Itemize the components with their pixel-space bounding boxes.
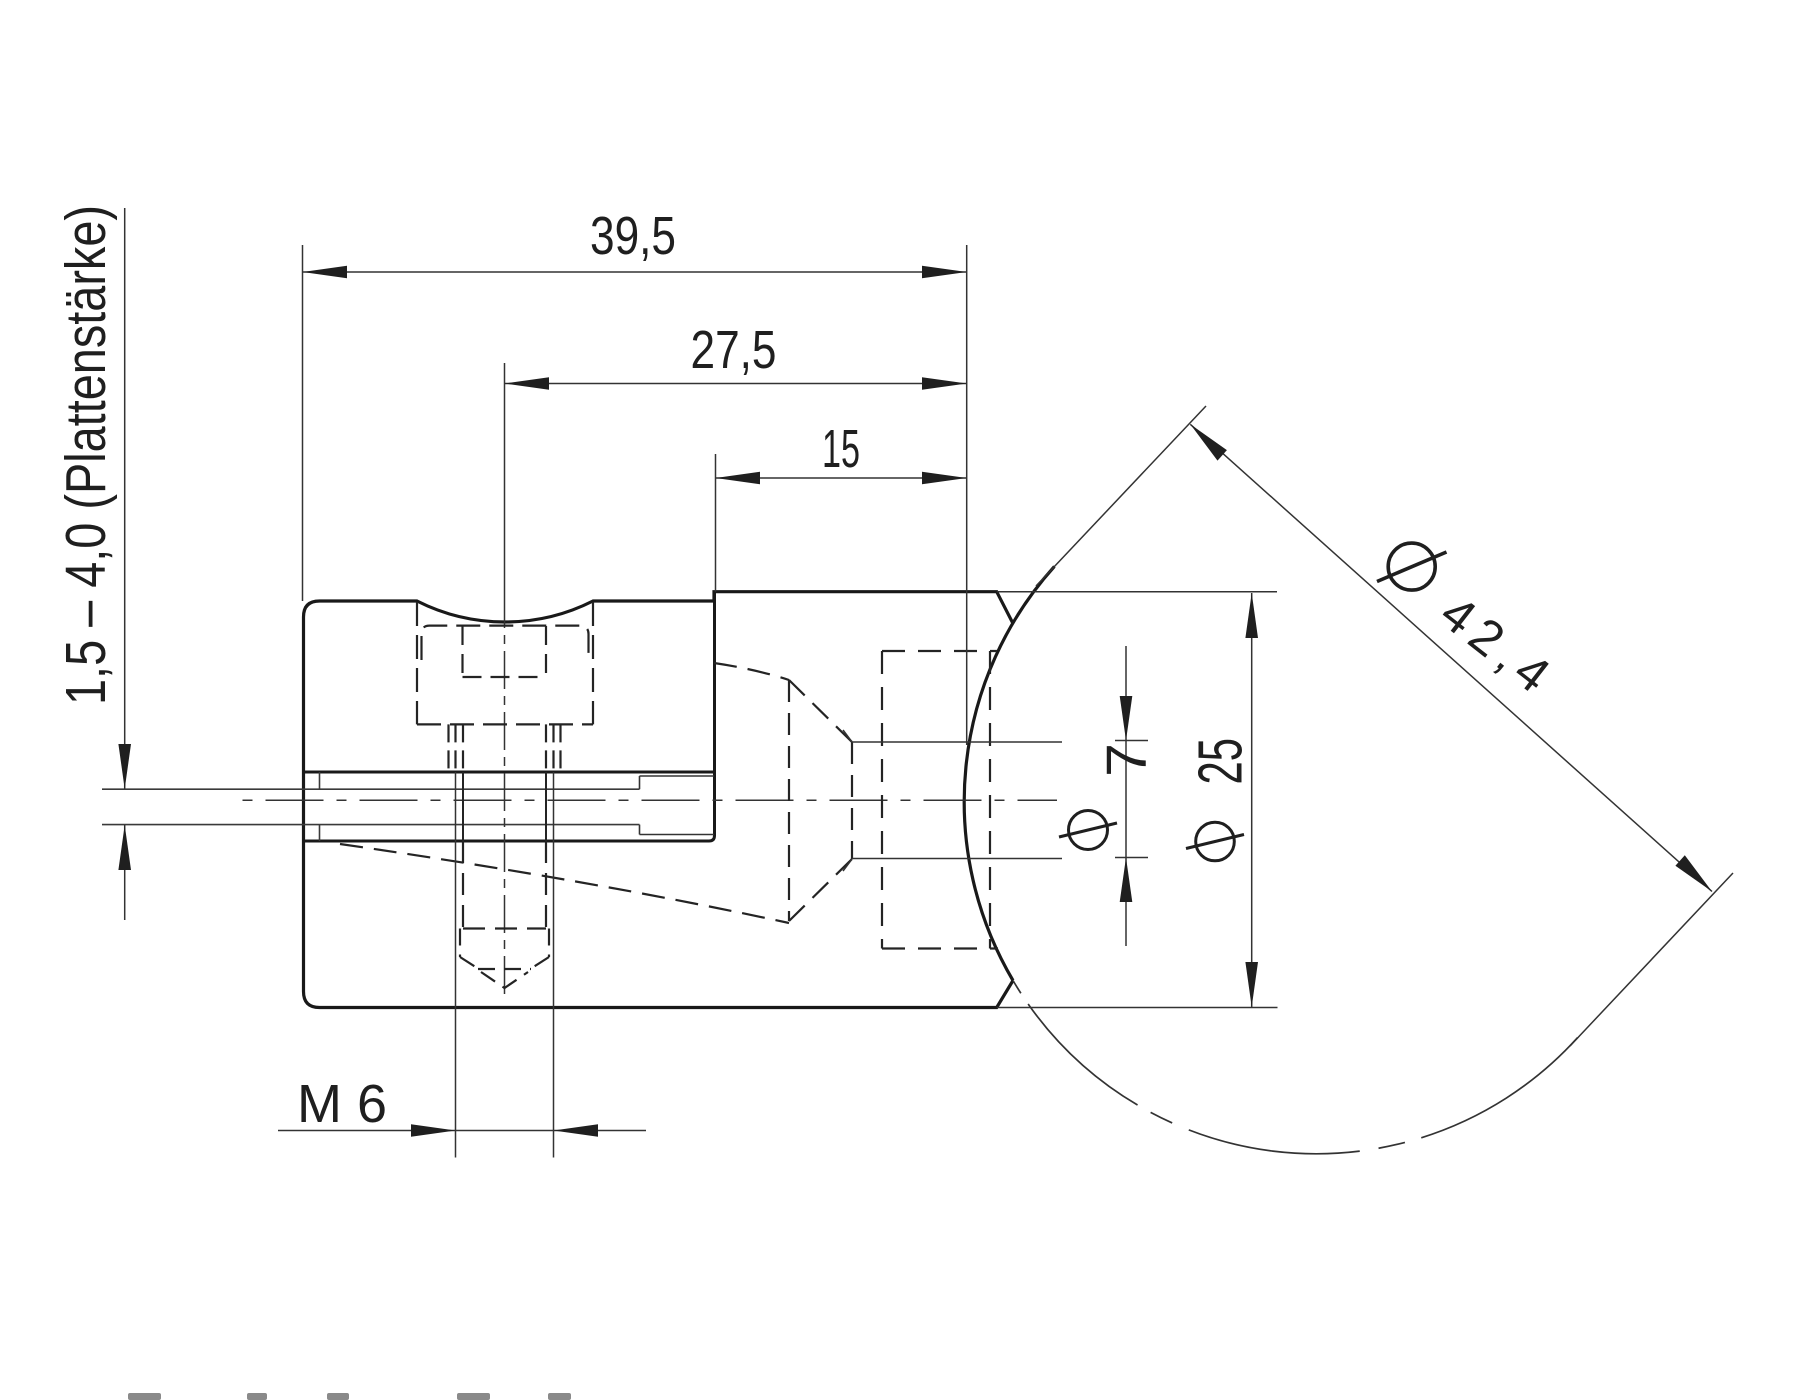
phantom lower tube arc (dash-dot) [1013,981,1578,1154]
dimension 1,5-4,0 Plattenstärke [124,208,126,920]
screw vertical center line [504,363,506,590]
glass slot bottom line [304,840,710,843]
dimension Ø25 [997,592,1278,1008]
glass plate (Plattenstärke) edges [102,772,640,841]
horizontal center line of mounting hole [243,799,1058,801]
svg-text:25: 25 [1187,738,1256,785]
solid cone end ticks [843,730,852,871]
clamp body outline (upper-left part with saddle dip, step, flange) [304,592,1014,1008]
hidden screw head outline [417,602,593,724]
hidden saddle pocket rectangle [882,651,998,949]
cut-off text at bottom edge [128,1393,571,1400]
hidden hex socket [463,626,547,677]
hidden clearance hole in upper jaw [449,724,561,772]
svg-text:M 6: M 6 [297,1074,387,1134]
svg-text:1,5 – 4,0 (Plattenstärke): 1,5 – 4,0 (Plattenstärke) [54,205,118,705]
hidden saddle curve lower [340,844,789,923]
dimension 27,5 [505,383,967,385]
svg-text:39,5: 39,5 [590,206,676,266]
hidden screw thread above slot [456,724,554,772]
dimension Ø7 [1115,646,1148,946]
slot inner end lines beyond gaskets [640,776,715,835]
mounting hole Ø7 edge lines on front face [852,742,1062,859]
svg-text:7: 7 [1095,743,1159,777]
dimension 39,5 [303,245,967,745]
dimension M 6 [278,772,646,1158]
screw visible through slot [463,772,546,841]
svg-text:27,5: 27,5 [691,320,777,380]
svg-text:15: 15 [822,419,860,479]
hidden saddle curve upper [714,663,789,680]
slot end edge [709,592,715,841]
hidden countersink cone [789,680,852,921]
glass slot top line [304,771,715,774]
dimension 15 [716,454,967,592]
tube contact arc (solid part of circle, cut into flange face) [964,566,1054,980]
hidden tapped hole end with drill point [460,929,549,989]
hidden screw thread in lower jaw [463,841,546,929]
dimension Ø42,4 [1036,406,1733,1046]
